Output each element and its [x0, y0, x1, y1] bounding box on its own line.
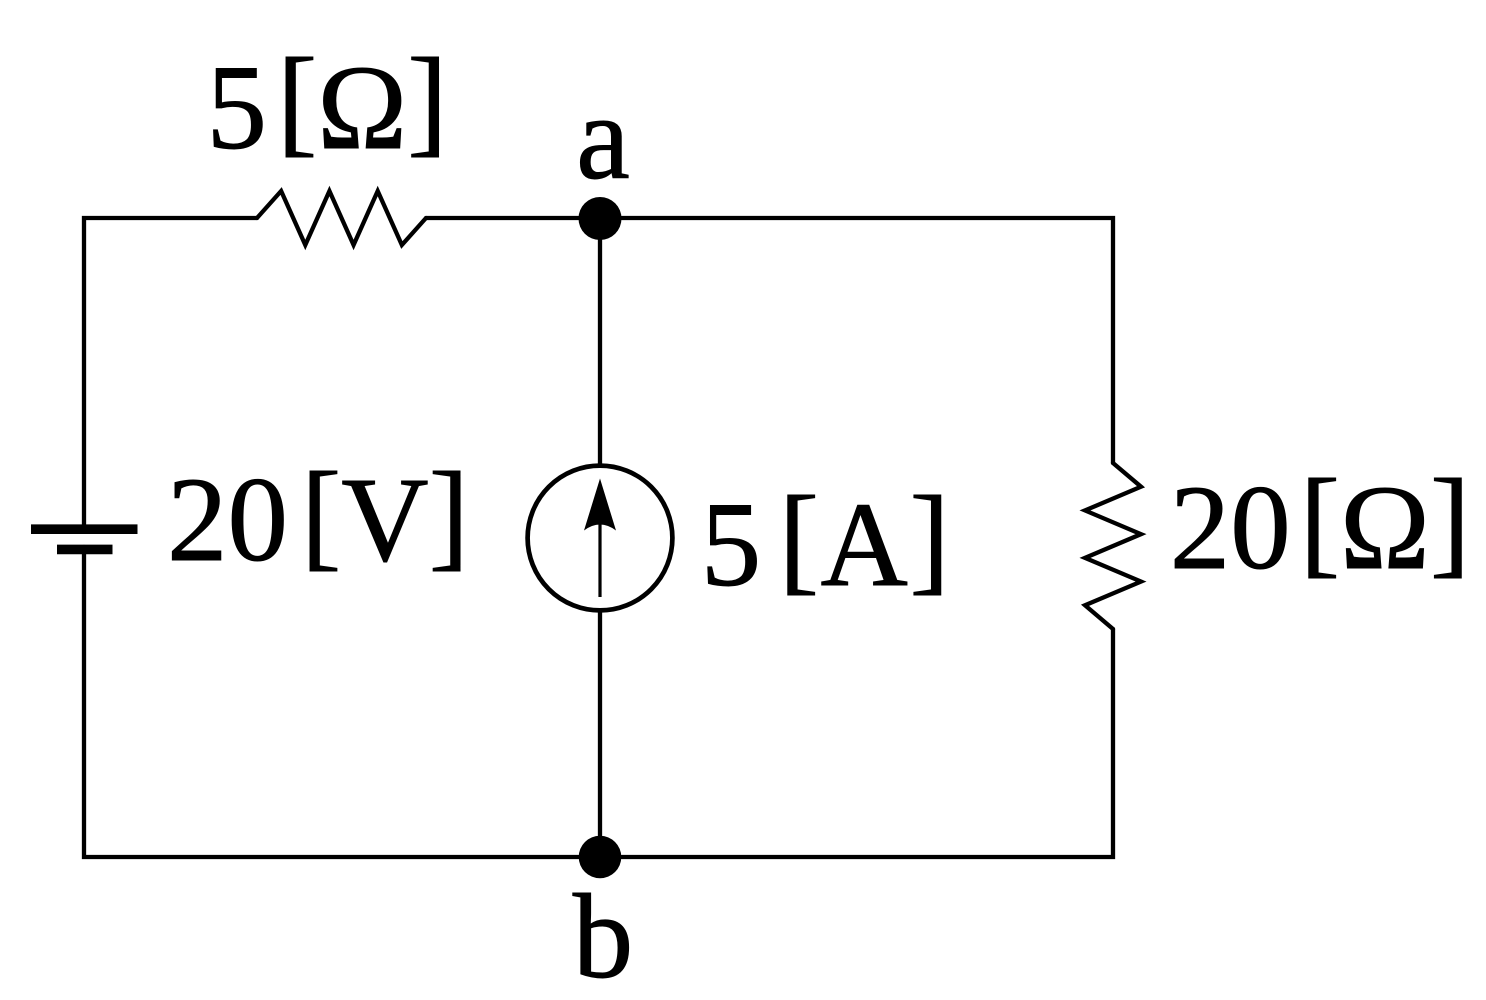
wire left branch upper + top-left segment — [84, 218, 257, 531]
svg-text:b: b — [573, 870, 634, 1000]
current source I1 arrowhead — [584, 479, 616, 531]
wire middle branch lower — [598, 610, 602, 857]
resistor R2 20 ohm vertical zigzag — [1085, 463, 1141, 629]
wire top segment from R1 to node a to right corner, down to R2 — [426, 218, 1113, 463]
battery V1 long plate — [31, 524, 138, 534]
svg-text:20[Ω]: 20[Ω] — [1170, 455, 1471, 595]
svg-text:a: a — [576, 71, 630, 205]
svg-text:5[Ω]: 5[Ω] — [206, 34, 447, 175]
svg-text:20[V]: 20[V] — [167, 448, 469, 587]
node b junction dot — [579, 836, 622, 879]
wire middle branch upper — [598, 218, 602, 466]
current source I1 arrow shaft — [598, 515, 601, 597]
wire right branch lower + bottom segment + left branch lower — [84, 547, 1113, 857]
svg-text:5[A]: 5[A] — [701, 472, 951, 612]
resistor R1 5 ohm horizontal zigzag — [257, 191, 426, 245]
node a junction dot — [579, 197, 622, 240]
current source I1 circle — [528, 466, 673, 611]
battery V1 short plate — [57, 545, 113, 555]
